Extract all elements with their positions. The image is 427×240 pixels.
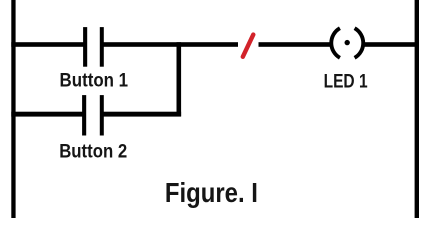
svg-text:LED 1: LED 1 [324,70,368,92]
wire rung1 Button 1 to slash gap [102,42,238,47]
contact B2 right bar [100,95,104,135]
wire rung2 Button 2 to branch junction [102,112,181,117]
wire rung1 slash gap to coil [259,42,332,47]
coil LED 1 right arc [355,28,364,58]
coil LED 1 center dot [345,40,350,45]
left power rail [11,0,15,218]
wire rung1 coil to right rail [363,42,420,47]
coil LED 1 left arc [331,28,340,58]
contact B1 left bar [83,27,87,67]
svg-text:Button 1: Button 1 [60,70,129,92]
wire rung1 left rail to Button 1 [11,42,85,47]
svg-text:Button 2: Button 2 [59,141,127,163]
branch vertical wire junction [177,42,182,116]
contact B2 left bar [82,95,86,135]
contact B1 right bar [100,27,104,67]
svg-text:Figure. I: Figure. I [165,177,258,208]
wire rung2 left rail to Button 2 [11,112,84,117]
right power rail [415,0,419,218]
NC slash contact (red) [243,35,254,57]
